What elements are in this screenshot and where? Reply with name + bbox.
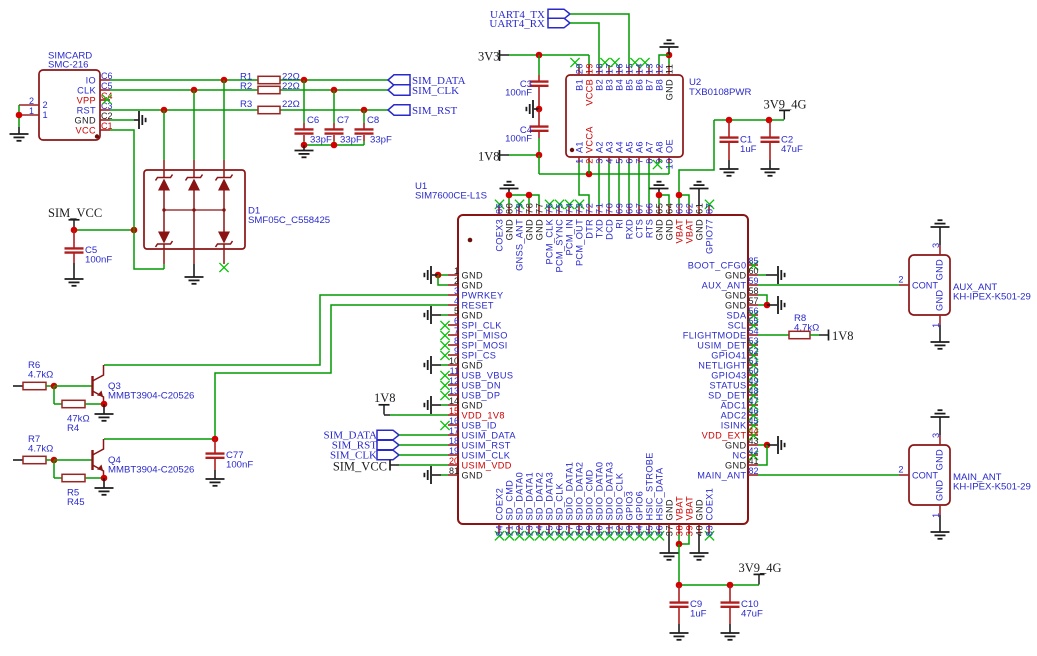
svg-text:25: 25 — [544, 525, 554, 536]
svg-text:COEX2: COEX2 — [494, 488, 504, 521]
svg-text:3V9_4G: 3V9_4G — [739, 561, 782, 575]
svg-text:SIM_VCC: SIM_VCC — [48, 206, 102, 220]
svg-text:R3: R3 — [240, 99, 252, 110]
svg-text:KH-IPEX-K501-29: KH-IPEX-K501-29 — [953, 482, 1031, 493]
svg-text:A2: A2 — [594, 141, 604, 153]
svg-text:45: 45 — [749, 416, 759, 426]
svg-text:3V3: 3V3 — [478, 50, 500, 64]
svg-text:5: 5 — [454, 306, 459, 316]
svg-text:71: 71 — [594, 203, 604, 214]
svg-text:VDD_1V8: VDD_1V8 — [462, 410, 505, 420]
svg-text:SDIO_DATA1: SDIO_DATA1 — [564, 462, 574, 521]
svg-text:PCM_CLK: PCM_CLK — [544, 218, 554, 264]
svg-text:17: 17 — [449, 426, 459, 436]
svg-text:CLK: CLK — [77, 85, 96, 95]
svg-text:4: 4 — [604, 158, 614, 164]
svg-text:4.7kΩ: 4.7kΩ — [28, 370, 53, 381]
svg-text:26: 26 — [554, 525, 564, 536]
svg-text:HSIC_DATA: HSIC_DATA — [654, 467, 664, 520]
svg-text:27: 27 — [564, 525, 574, 536]
svg-text:66: 66 — [644, 203, 654, 214]
svg-text:100nF: 100nF — [505, 88, 532, 99]
svg-text:46: 46 — [749, 406, 759, 416]
svg-text:1V8: 1V8 — [374, 391, 396, 405]
svg-text:24: 24 — [534, 525, 544, 536]
svg-text:6: 6 — [624, 158, 634, 164]
svg-text:70: 70 — [604, 203, 614, 214]
svg-text:GND: GND — [462, 270, 483, 280]
svg-text:33pF: 33pF — [370, 135, 392, 146]
svg-text:B6: B6 — [634, 79, 644, 91]
svg-text:A5: A5 — [624, 141, 634, 153]
svg-text:68: 68 — [624, 203, 634, 214]
svg-text:30: 30 — [594, 525, 604, 536]
svg-text:69: 69 — [614, 203, 624, 214]
svg-text:22: 22 — [514, 525, 524, 536]
svg-text:VCCA: VCCA — [584, 126, 594, 153]
svg-text:76: 76 — [544, 203, 554, 214]
svg-text:A6: A6 — [634, 141, 644, 153]
svg-text:SCL: SCL — [728, 320, 747, 330]
svg-text:36: 36 — [654, 525, 664, 536]
svg-text:74: 74 — [564, 203, 574, 214]
svg-text:SDIO_DATA3: SDIO_DATA3 — [604, 462, 614, 521]
svg-text:5: 5 — [614, 158, 624, 164]
svg-text:47uF: 47uF — [741, 609, 763, 620]
svg-text:SPI_MISO: SPI_MISO — [462, 330, 508, 340]
svg-text:GPIO77: GPIO77 — [704, 219, 714, 254]
svg-text:R4: R4 — [67, 423, 80, 434]
svg-text:85: 85 — [749, 256, 759, 266]
svg-text:SD_DATA1: SD_DATA1 — [524, 472, 534, 521]
svg-text:UART4_RX: UART4_RX — [489, 18, 545, 30]
svg-text:STATUS: STATUS — [710, 380, 747, 390]
svg-text:C7: C7 — [337, 115, 349, 126]
svg-text:SD_DATA0: SD_DATA0 — [514, 472, 524, 521]
svg-text:GND: GND — [725, 270, 746, 280]
svg-text:47uF: 47uF — [781, 144, 803, 155]
svg-text:USB_ID: USB_ID — [462, 420, 497, 430]
svg-text:2: 2 — [584, 158, 594, 164]
svg-text:B4: B4 — [614, 79, 624, 91]
svg-text:72: 72 — [584, 203, 594, 214]
svg-text:1V8: 1V8 — [832, 329, 854, 343]
svg-text:GND: GND — [664, 499, 674, 520]
svg-text:SDA: SDA — [727, 310, 747, 320]
svg-text:21: 21 — [504, 525, 514, 536]
svg-text:58: 58 — [749, 286, 759, 296]
svg-text:33pF: 33pF — [340, 135, 362, 146]
svg-text:28: 28 — [574, 525, 584, 536]
svg-text:FLIGHTMODE: FLIGHTMODE — [683, 330, 747, 340]
svg-text:2: 2 — [898, 465, 903, 475]
svg-text:AUX_ANT: AUX_ANT — [702, 280, 747, 290]
svg-text:GND: GND — [935, 480, 945, 501]
svg-text:VDD_EXT: VDD_EXT — [702, 430, 747, 440]
svg-text:13: 13 — [449, 386, 459, 396]
svg-text:81: 81 — [449, 466, 459, 476]
svg-text:32: 32 — [614, 525, 624, 536]
svg-text:SPI_CS: SPI_CS — [462, 350, 497, 360]
svg-text:VPP: VPP — [77, 95, 96, 105]
svg-text:SD_DATA3: SD_DATA3 — [544, 472, 554, 521]
svg-text:GND: GND — [462, 470, 483, 480]
svg-text:100nF: 100nF — [226, 460, 253, 471]
svg-text:GND: GND — [504, 219, 514, 240]
svg-text:SMF05C_C558425: SMF05C_C558425 — [248, 215, 330, 226]
svg-text:SIM_RST: SIM_RST — [412, 105, 458, 117]
svg-text:GND: GND — [664, 79, 674, 100]
svg-text:RESET: RESET — [462, 300, 494, 310]
svg-text:73: 73 — [574, 203, 584, 214]
svg-text:SDIO_DATA0: SDIO_DATA0 — [594, 462, 604, 521]
svg-text:2: 2 — [898, 275, 903, 285]
svg-text:11: 11 — [450, 366, 459, 376]
svg-text:GND: GND — [664, 219, 674, 240]
svg-text:1: 1 — [43, 110, 48, 120]
svg-text:VBAT: VBAT — [674, 219, 684, 244]
svg-text:OE: OE — [664, 139, 674, 153]
svg-text:11: 11 — [664, 64, 674, 75]
svg-text:B8: B8 — [654, 79, 664, 91]
svg-text:43: 43 — [749, 436, 759, 446]
svg-text:3V9_4G: 3V9_4G — [764, 98, 807, 112]
svg-text:22Ω: 22Ω — [282, 99, 300, 110]
svg-text:8: 8 — [644, 158, 654, 164]
svg-text:79: 79 — [514, 203, 524, 214]
svg-text:84: 84 — [494, 525, 504, 536]
svg-text:SPI_MOSI: SPI_MOSI — [462, 340, 508, 350]
svg-text:4.7kΩ: 4.7kΩ — [28, 444, 53, 455]
svg-text:22Ω: 22Ω — [282, 81, 300, 92]
svg-text:B1: B1 — [574, 79, 584, 91]
svg-text:54: 54 — [749, 326, 759, 336]
svg-text:19: 19 — [449, 446, 459, 456]
svg-text:GNSS_ANT: GNSS_ANT — [514, 219, 524, 271]
svg-text:R45: R45 — [67, 497, 85, 508]
svg-text:GND: GND — [654, 219, 664, 240]
svg-text:GND: GND — [935, 290, 945, 311]
svg-text:57: 57 — [749, 296, 759, 306]
svg-text:18: 18 — [449, 436, 459, 446]
svg-text:PWRKEY: PWRKEY — [462, 290, 504, 300]
svg-text:USB_VBUS: USB_VBUS — [462, 370, 514, 380]
svg-text:16: 16 — [449, 416, 459, 426]
svg-text:3: 3 — [594, 158, 604, 164]
svg-text:GND: GND — [935, 449, 945, 470]
svg-text:GND: GND — [725, 460, 746, 470]
svg-text:82: 82 — [749, 466, 759, 476]
svg-text:35: 35 — [644, 525, 654, 536]
svg-text:B5: B5 — [624, 79, 634, 91]
svg-text:SPI_CLK: SPI_CLK — [462, 320, 503, 330]
svg-text:ADC1: ADC1 — [721, 400, 747, 410]
svg-text:A1: A1 — [574, 141, 584, 153]
svg-text:4.7kΩ: 4.7kΩ — [794, 323, 819, 334]
svg-text:GND: GND — [725, 300, 746, 310]
svg-text:SIM_CLK: SIM_CLK — [412, 85, 459, 97]
svg-text:33: 33 — [624, 525, 634, 536]
svg-text:GND: GND — [694, 219, 704, 240]
svg-text:SDIO_CMD: SDIO_CMD — [584, 470, 594, 521]
svg-text:SIM_VCC: SIM_VCC — [333, 459, 387, 473]
svg-text:1: 1 — [574, 158, 584, 164]
svg-text:15: 15 — [449, 406, 459, 416]
svg-text:NC: NC — [733, 450, 747, 460]
svg-text:USIM_VDD: USIM_VDD — [462, 460, 512, 470]
svg-text:31: 31 — [604, 525, 614, 536]
svg-text:42: 42 — [749, 446, 759, 456]
svg-text:VBAT: VBAT — [684, 496, 694, 521]
svg-text:GPIO41: GPIO41 — [711, 350, 746, 360]
svg-text:PCM_SYNC: PCM_SYNC — [554, 219, 564, 273]
svg-text:GND: GND — [462, 360, 483, 370]
svg-text:44: 44 — [749, 426, 759, 436]
svg-text:SDIO_DATA2: SDIO_DATA2 — [574, 462, 584, 521]
svg-text:86: 86 — [494, 203, 504, 214]
svg-text:12: 12 — [449, 376, 459, 386]
svg-text:2: 2 — [454, 276, 459, 286]
svg-text:16: 16 — [614, 63, 624, 74]
svg-text:60: 60 — [749, 266, 759, 276]
svg-text:SD_CMD: SD_CMD — [504, 480, 514, 521]
svg-text:10: 10 — [449, 356, 459, 366]
svg-text:GND: GND — [524, 219, 534, 240]
svg-text:C8: C8 — [367, 115, 379, 126]
svg-text:HSIC_STROBE: HSIC_STROBE — [644, 452, 654, 520]
svg-text:SDIO_CLK: SDIO_CLK — [614, 472, 624, 520]
svg-text:DCD: DCD — [604, 219, 614, 240]
svg-text:8: 8 — [454, 336, 459, 346]
svg-text:VBAT: VBAT — [674, 496, 684, 521]
svg-text:87: 87 — [704, 203, 714, 214]
svg-text:34: 34 — [634, 525, 644, 536]
svg-text:1: 1 — [454, 266, 459, 276]
svg-text:GPIO6: GPIO6 — [634, 491, 644, 521]
svg-text:29: 29 — [584, 525, 594, 536]
svg-text:GND: GND — [534, 219, 544, 240]
svg-text:PCM_IN: PCM_IN — [564, 219, 574, 256]
svg-text:23: 23 — [524, 525, 534, 536]
svg-text:SD_DET: SD_DET — [708, 390, 746, 400]
svg-text:USIM_DET: USIM_DET — [697, 340, 746, 350]
svg-text:1: 1 — [29, 106, 34, 116]
svg-text:6: 6 — [454, 316, 459, 326]
svg-text:KH-IPEX-K501-29: KH-IPEX-K501-29 — [953, 292, 1031, 303]
svg-text:53: 53 — [749, 336, 759, 346]
svg-text:SD_DATA2: SD_DATA2 — [534, 472, 544, 521]
svg-text:55: 55 — [749, 316, 759, 326]
svg-text:75: 75 — [554, 203, 564, 214]
svg-text:TXB0108PWR: TXB0108PWR — [689, 87, 751, 98]
svg-text:VCCB: VCCB — [584, 79, 594, 106]
svg-text:4: 4 — [454, 296, 459, 306]
svg-text:TXD: TXD — [594, 219, 604, 238]
svg-text:47: 47 — [749, 396, 759, 406]
svg-text:52: 52 — [749, 346, 759, 356]
svg-text:A8: A8 — [654, 141, 664, 153]
svg-text:SMC-216: SMC-216 — [48, 60, 89, 71]
svg-text:USIM_CLK: USIM_CLK — [462, 450, 511, 460]
svg-text:GPIO3: GPIO3 — [624, 491, 634, 521]
svg-text:GND: GND — [462, 280, 483, 290]
svg-text:SD_CLK: SD_CLK — [554, 482, 564, 520]
svg-text:RTS: RTS — [644, 219, 654, 238]
svg-text:51: 51 — [749, 356, 759, 366]
svg-text:33pF: 33pF — [310, 135, 332, 146]
svg-text:100nF: 100nF — [85, 255, 112, 266]
svg-text:20: 20 — [449, 456, 459, 466]
svg-text:SIM7600CE-L1S: SIM7600CE-L1S — [415, 191, 487, 202]
svg-text:ADC2: ADC2 — [721, 410, 747, 420]
svg-text:CONT: CONT — [912, 280, 938, 290]
svg-text:VCC: VCC — [76, 125, 96, 135]
svg-text:MMBT3904-C20526: MMBT3904-C20526 — [108, 391, 194, 402]
svg-text:B3: B3 — [604, 79, 614, 91]
svg-text:GPIO43: GPIO43 — [711, 370, 746, 380]
svg-text:20: 20 — [574, 63, 584, 74]
svg-text:13: 13 — [644, 63, 654, 74]
svg-text:67: 67 — [634, 203, 644, 214]
svg-text:2: 2 — [43, 100, 48, 110]
svg-text:1V8: 1V8 — [478, 150, 500, 164]
svg-text:USIM_DATA: USIM_DATA — [462, 430, 517, 440]
svg-text:A7: A7 — [644, 141, 654, 153]
svg-text:USB_DP: USB_DP — [462, 390, 501, 400]
svg-text:9: 9 — [454, 346, 459, 356]
svg-text:COEX3: COEX3 — [494, 219, 504, 252]
svg-text:1uF: 1uF — [740, 144, 757, 155]
svg-text:COEX1: COEX1 — [704, 488, 714, 521]
svg-text:GND: GND — [725, 290, 746, 300]
svg-text:7: 7 — [454, 326, 459, 336]
svg-text:59: 59 — [749, 276, 759, 286]
svg-text:B7: B7 — [644, 79, 654, 91]
svg-text:USIM_RST: USIM_RST — [462, 440, 511, 450]
svg-text:B2: B2 — [594, 79, 604, 91]
svg-text:56: 56 — [749, 306, 759, 316]
svg-text:USB_DN: USB_DN — [462, 380, 501, 390]
svg-text:CONT: CONT — [912, 470, 938, 480]
svg-text:100nF: 100nF — [505, 134, 532, 145]
svg-text:41: 41 — [749, 456, 759, 466]
svg-text:RXD: RXD — [624, 219, 634, 239]
svg-text:CTS: CTS — [634, 219, 644, 238]
svg-text:GND: GND — [462, 400, 483, 410]
svg-text:MMBT3904-C20526: MMBT3904-C20526 — [108, 465, 194, 476]
svg-text:50: 50 — [749, 366, 759, 376]
svg-text:2: 2 — [29, 96, 34, 106]
svg-text:1uF: 1uF — [690, 609, 707, 620]
svg-text:VBAT: VBAT — [684, 219, 694, 244]
svg-text:GND: GND — [935, 259, 945, 280]
svg-text:GND: GND — [694, 499, 704, 520]
svg-text:3: 3 — [454, 286, 459, 296]
svg-text:IO: IO — [86, 75, 96, 85]
svg-text:NETLIGHT: NETLIGHT — [698, 360, 746, 370]
svg-text:14: 14 — [449, 396, 459, 406]
svg-text:A4: A4 — [614, 141, 624, 153]
svg-text:49: 49 — [749, 376, 759, 386]
svg-text:BOOT_CFG0: BOOT_CFG0 — [688, 260, 747, 270]
svg-text:MAIN_ANT: MAIN_ANT — [697, 470, 746, 480]
svg-text:GND: GND — [462, 310, 483, 320]
svg-text:RST: RST — [77, 105, 96, 115]
svg-text:R2: R2 — [240, 81, 252, 92]
svg-text:DTR: DTR — [584, 219, 594, 239]
svg-text:7: 7 — [634, 158, 644, 164]
svg-text:83: 83 — [704, 525, 714, 536]
svg-text:48: 48 — [749, 386, 759, 396]
svg-text:ISINK: ISINK — [721, 420, 747, 430]
svg-text:A3: A3 — [604, 141, 614, 153]
svg-text:C6: C6 — [307, 115, 319, 126]
svg-text:PCM_OUT: PCM_OUT — [574, 219, 584, 266]
svg-text:RI: RI — [614, 219, 624, 229]
svg-text:GND: GND — [75, 115, 96, 125]
svg-text:GND: GND — [725, 440, 746, 450]
